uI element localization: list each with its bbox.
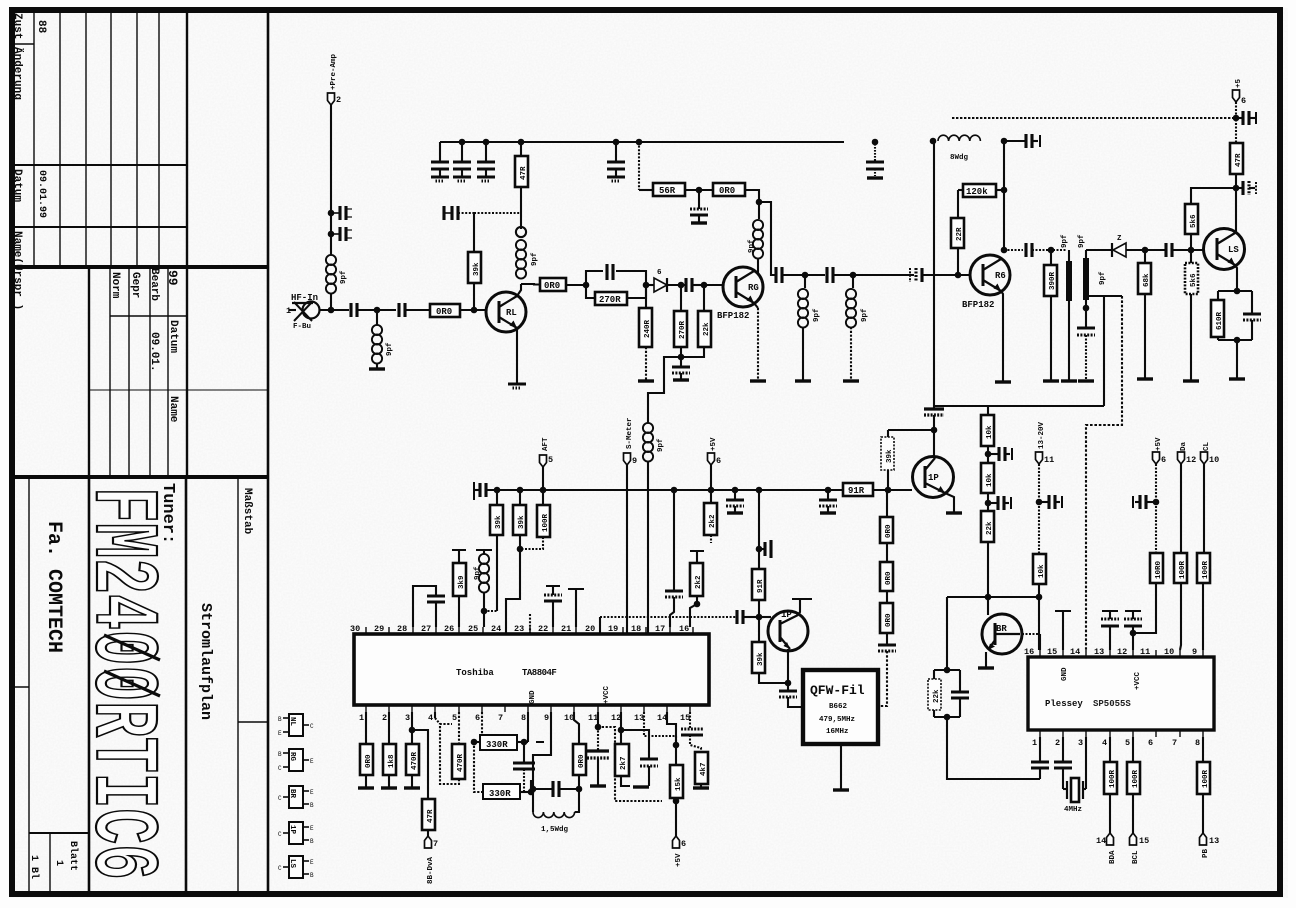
- title block texts: [11, 13, 253, 880]
- wire: [685, 189, 713, 191]
- node base-RL: [471, 307, 478, 314]
- resistor 10R0: [1150, 553, 1163, 583]
- ground L6: [795, 380, 811, 382]
- resistor 390R: [1050, 250, 1052, 265]
- svg-text:RG: RG: [288, 752, 296, 762]
- wire rail 6V: [440, 141, 844, 143]
- svg-text:Norm: Norm: [109, 272, 121, 299]
- svg-text:5k6: 5k6: [1190, 273, 1198, 287]
- resistor 2k2: [710, 490, 712, 503]
- wire to pin23: [506, 549, 520, 633]
- transistor BR: [982, 614, 1022, 654]
- schematic field left boundary: [267, 7, 270, 894]
- resistor 10k (13-20V): [1033, 554, 1046, 584]
- resistor 68k: [1144, 250, 1146, 263]
- svg-text:2: 2: [336, 95, 341, 105]
- capacitor R6 base: [916, 268, 922, 282]
- pin15 capacitor: [689, 712, 691, 729]
- svg-text:39k: 39k: [518, 515, 526, 529]
- svg-text:Änderung: Änderung: [11, 47, 24, 100]
- svg-text:4: 4: [1102, 738, 1107, 748]
- resistor 330R upper: [480, 712, 482, 742]
- svg-text:9pf: 9pf: [1061, 234, 1069, 248]
- wire to Plessey pin14 (long): [1086, 296, 1122, 650]
- svg-text:1: 1: [1032, 738, 1037, 748]
- svg-text:22: 22: [538, 624, 548, 634]
- node RG coil: [756, 199, 763, 206]
- node coil right: [1001, 138, 1008, 145]
- svg-text:0R0: 0R0: [885, 613, 893, 627]
- wire pin14 to 15k: [667, 712, 676, 745]
- svg-text:+5V: +5V: [675, 853, 683, 867]
- node rail +5V: [708, 487, 715, 494]
- svg-text:20: 20: [585, 624, 595, 634]
- node 10k b/22k: [985, 500, 992, 507]
- resistor 270R vertical: [680, 285, 682, 311]
- svg-text:25: 25: [468, 624, 478, 634]
- svg-text:18: 18: [631, 624, 641, 634]
- svg-text:E: E: [310, 789, 314, 796]
- node 68k: [1142, 247, 1149, 254]
- capacitor rail left end: [473, 482, 475, 500]
- svg-text:0R0: 0R0: [436, 307, 452, 317]
- svg-text:8: 8: [1195, 738, 1200, 748]
- wire down from coil node: [933, 141, 935, 409]
- svg-text:30: 30: [350, 624, 360, 634]
- IF line from R6 collector: [1004, 249, 1023, 251]
- plessey top stubs: [1040, 650, 1203, 657]
- svg-text:1: 1: [53, 860, 64, 866]
- capacitor 10k b: [988, 502, 998, 504]
- svg-text:B: B: [278, 716, 282, 723]
- connector AFT (5): [540, 455, 547, 467]
- svg-text:TA8804F: TA8804F: [522, 668, 556, 678]
- wire to coil node: [745, 190, 759, 202]
- svg-text:14: 14: [1070, 647, 1080, 657]
- svg-text:LS: LS: [288, 859, 296, 869]
- svg-text:12: 12: [1117, 647, 1127, 657]
- svg-text:6: 6: [1148, 738, 1153, 748]
- ground RG emitter: [750, 380, 766, 382]
- svg-text:22R: 22R: [956, 227, 964, 241]
- svg-text:9pf: 9pf: [813, 308, 821, 322]
- wire to IF coil (pin18): [648, 357, 681, 423]
- capacitor hf C3: [351, 303, 357, 317]
- resistor 3k9 (pin26): [458, 596, 460, 627]
- capacitor +5V: [1236, 117, 1243, 119]
- svg-text:Fa. COMTECH: Fa. COMTECH: [42, 521, 65, 653]
- capacitor 47R bottom: [1236, 187, 1243, 189]
- svg-text:330R: 330R: [489, 789, 511, 799]
- transistor RL: [486, 292, 526, 332]
- ground 240R: [638, 380, 654, 382]
- transistor LS: [1204, 229, 1245, 270]
- svg-text:09.01.: 09.01.: [148, 332, 160, 372]
- capacitor +5V plessey: [1146, 501, 1156, 503]
- node rail 39k2: [517, 487, 524, 494]
- svg-text:Stromlaufplan: Stromlaufplan: [197, 603, 214, 720]
- pin12 capacitor: [1132, 626, 1134, 650]
- TITLE BLOCK: [10, 9, 268, 894]
- ground 390R: [1043, 380, 1059, 382]
- svg-text:RL: RL: [506, 308, 517, 318]
- svg-text:Da: Da: [1180, 441, 1188, 451]
- ground BR: [978, 667, 994, 669]
- resistor 22k (dashed) with cap: [946, 597, 948, 670]
- mid section verticals: [88, 267, 90, 477]
- wire osc base to transistor: [759, 616, 771, 618]
- wire IF to Z diode: [1086, 249, 1112, 251]
- connector HF-In F-Bu: [286, 293, 320, 331]
- svg-text:2k7: 2k7: [620, 756, 628, 770]
- svg-text:9pf: 9pf: [657, 438, 665, 452]
- resistor 1k8 (pin2): [388, 712, 390, 744]
- svg-text:+5V: +5V: [1155, 437, 1163, 451]
- connector +5V top right: [1233, 90, 1240, 102]
- bottom pin numbers: [359, 713, 690, 723]
- pin13 capacitor: [1109, 626, 1111, 650]
- svg-text:47R: 47R: [1235, 153, 1243, 167]
- svg-text:11: 11: [588, 713, 598, 723]
- svg-text:Blatt: Blatt: [67, 841, 79, 871]
- svg-text:Zust: Zust: [11, 13, 23, 39]
- transistor 1P oscillator: [768, 610, 808, 651]
- svg-text:3: 3: [405, 713, 410, 723]
- connector +5V plessey (6): [1153, 452, 1160, 464]
- bottom pin stubs 1..15: [366, 705, 690, 712]
- wire RL collector: [517, 284, 521, 296]
- svg-text:S-Meter: S-Meter: [626, 417, 634, 449]
- resistor 47R (LS): [1230, 143, 1243, 174]
- node rail AFT: [540, 487, 547, 494]
- connector 13-20V (11): [1036, 452, 1043, 464]
- svg-text:6: 6: [657, 269, 662, 277]
- svg-text:LS: LS: [1228, 245, 1239, 255]
- resistor 22k: [981, 511, 994, 542]
- svg-text:13: 13: [1094, 647, 1104, 657]
- node 120k right: [1001, 187, 1008, 194]
- wire pre-amp vertical: [330, 105, 332, 255]
- node pin25 coil: [481, 608, 488, 615]
- node isolated cap: [872, 139, 879, 146]
- wire osc chain: [758, 490, 760, 569]
- package NL: [278, 714, 314, 737]
- svg-text:270R: 270R: [599, 295, 621, 305]
- capacitor 22k partner: [959, 670, 961, 692]
- capacitor 13-20V: [1039, 501, 1049, 503]
- resistor 10k b: [981, 463, 994, 493]
- capacitor rail C c: [485, 142, 487, 162]
- connector S-Meter (9): [624, 453, 631, 465]
- pin15 stub Tbar: [1062, 612, 1064, 650]
- svg-text:7: 7: [498, 713, 503, 723]
- svg-text:10: 10: [564, 713, 574, 723]
- svg-text:24: 24: [491, 624, 501, 634]
- node rail c: [483, 139, 490, 146]
- svg-text:12: 12: [611, 713, 621, 723]
- svg-text:Z: Z: [1117, 235, 1122, 243]
- svg-text:10: 10: [1209, 455, 1219, 465]
- svg-text:4MHz: 4MHz: [1064, 806, 1082, 814]
- node +5V cap: [1153, 499, 1160, 506]
- svg-text:5: 5: [452, 713, 457, 723]
- svg-text:C: C: [278, 765, 282, 772]
- wire BR collector net: [947, 596, 1039, 598]
- connector +Pre-Amp (2): [328, 93, 335, 105]
- inductor 8Wdg: [938, 135, 980, 141]
- wire mid rail: [486, 489, 843, 491]
- svg-text:120k: 120k: [966, 187, 988, 197]
- svg-text:B: B: [310, 872, 314, 879]
- stub pin21: [575, 590, 577, 627]
- svg-text:AFT: AFT: [542, 437, 550, 451]
- capacitor 39k-top: [444, 206, 458, 220]
- top pin numbers: [350, 624, 689, 634]
- capacitor hf C4: [399, 303, 405, 317]
- svg-text:1,5Wdg: 1,5Wdg: [541, 826, 569, 834]
- capacitor base RG: [686, 278, 692, 292]
- node R6 collector: [1001, 247, 1008, 254]
- node rail d: [613, 139, 620, 146]
- node rail cap828: [825, 487, 832, 494]
- resistor 39k (pin24): [496, 490, 498, 505]
- title area verticals: [28, 477, 30, 894]
- svg-text:E: E: [310, 859, 314, 866]
- capacitor emitter: [1251, 291, 1253, 314]
- capacitor rail C d: [615, 142, 617, 162]
- resistor 56R: [653, 183, 685, 196]
- svg-text:15: 15: [680, 713, 690, 723]
- svg-text:2: 2: [382, 713, 387, 723]
- svg-text:B: B: [278, 751, 282, 758]
- svg-text:NL: NL: [288, 717, 296, 727]
- resistor 470R (pin3): [411, 712, 413, 744]
- ground mixer emitter: [946, 512, 962, 514]
- wire 5k6 top: [1191, 188, 1236, 204]
- svg-text:100R: 100R: [1132, 769, 1140, 788]
- revision table horizontals: [10, 43, 34, 45]
- resistor 0R0 (RL collector out): [540, 278, 566, 291]
- svg-text:19: 19: [608, 624, 618, 634]
- svg-text:56R: 56R: [659, 186, 676, 196]
- bracket: [934, 669, 960, 671]
- svg-text:9pf: 9pf: [340, 270, 348, 284]
- svg-text:91R: 91R: [757, 579, 765, 593]
- svg-text:9: 9: [1192, 647, 1197, 657]
- capacitor 270R bottom: [680, 357, 682, 367]
- capacitor R6 base left Tbar: [909, 268, 911, 282]
- resistor 0R0 (pin1): [365, 712, 367, 744]
- capacitor tank: [533, 788, 553, 790]
- resistor 120k: [963, 184, 996, 197]
- svg-text:2k2: 2k2: [695, 575, 703, 589]
- node preamp-cap1: [328, 210, 335, 217]
- wire 22k bottom to pin1 cap: [947, 717, 1040, 779]
- node rail b: [459, 139, 466, 146]
- resistor 10k a: [981, 415, 994, 446]
- inductor L2 9pf: [376, 310, 378, 325]
- IC U1 Toshiba TA8804F: [354, 634, 709, 705]
- resistor 22k: [704, 285, 706, 311]
- node 39k2/100R: [517, 546, 524, 553]
- svg-text:27: 27: [421, 624, 431, 634]
- svg-text:4: 4: [428, 713, 433, 723]
- ground R6 emitter: [995, 381, 1011, 383]
- svg-text:3: 3: [1078, 738, 1083, 748]
- resistor 22R: [957, 247, 959, 275]
- svg-text:6: 6: [681, 839, 686, 849]
- wire branch to output cap: [759, 202, 776, 275]
- wire 270R/22k bottoms: [681, 347, 704, 357]
- capacitor rail C a: [439, 142, 441, 162]
- diode 6: [654, 269, 667, 292]
- svg-text:11: 11: [1140, 647, 1150, 657]
- svg-text:RG: RG: [748, 283, 759, 293]
- node hf1: [328, 307, 335, 314]
- resistor 4k7: [695, 752, 708, 784]
- node 10k a/b: [985, 451, 992, 458]
- node under bar2: [1083, 305, 1090, 312]
- node osc cap: [756, 546, 763, 553]
- resistor 47R (to connector 7): [412, 730, 428, 799]
- svg-text:22k: 22k: [703, 322, 711, 336]
- svg-text:17: 17: [655, 624, 665, 634]
- revision table verticals: [33, 9, 35, 267]
- node rail cap735: [732, 487, 739, 494]
- package LS: [278, 856, 314, 879]
- node emitter net bottom: [1234, 337, 1241, 344]
- wire S-Meter to pin19: [626, 465, 628, 633]
- svg-text:470R: 470R: [457, 753, 465, 772]
- wire LS emitter: [1235, 265, 1237, 291]
- capacitor 8Wdg right: [1004, 140, 1026, 142]
- svg-text:7: 7: [1172, 738, 1177, 748]
- node osc base: [756, 614, 763, 621]
- capacitor RG out: [776, 267, 782, 283]
- svg-text:F-Bu: F-Bu: [293, 323, 311, 331]
- resistor 39k osc: [752, 642, 765, 673]
- resistor 2k2 (pin16): [690, 550, 704, 552]
- wire BR emitter: [985, 652, 987, 667]
- node preamp-cap2: [328, 231, 335, 238]
- node coil left: [930, 138, 937, 145]
- svg-text:+5V: +5V: [710, 437, 718, 451]
- svg-text:5k6: 5k6: [1190, 214, 1198, 228]
- filter bar 2: [1083, 258, 1089, 300]
- node osc emitter: [785, 680, 792, 687]
- filter bar 1: [1066, 261, 1072, 301]
- capacitor 10k a: [988, 453, 999, 455]
- svg-text:91R: 91R: [848, 486, 865, 496]
- svg-text:21: 21: [561, 624, 571, 634]
- inductor L4 9pf RG collector: [758, 202, 760, 219]
- capacitor IF 1: [1026, 243, 1032, 257]
- ground 5k6: [1183, 380, 1199, 382]
- svg-text:BCL: BCL: [1132, 850, 1140, 864]
- wire 470R bottom to pin4 loop: [440, 724, 459, 784]
- svg-text:FM2400RTIC6: FM2400RTIC6: [69, 487, 172, 880]
- node rail osc: [756, 487, 763, 494]
- parallel RC 270R: top capacitor: [586, 271, 603, 285]
- svg-text:23: 23: [514, 624, 524, 634]
- capacitor rail C e (floating): [874, 144, 876, 162]
- resistor 47R: [520, 187, 522, 213]
- resistor 100R (pin5): [1132, 737, 1134, 762]
- wire pin13: [644, 712, 676, 745]
- wire +5V rail: [952, 117, 1236, 119]
- wire dotted to 47R node: [458, 212, 474, 214]
- ground L7: [843, 380, 859, 382]
- inductor pin25: [476, 549, 492, 551]
- svg-text:C: C: [278, 831, 282, 838]
- svg-text:BFP182: BFP182: [717, 311, 749, 321]
- capacitor rail C b: [461, 142, 463, 162]
- svg-text:390R: 390R: [1049, 271, 1057, 290]
- crystal 4MHz: [1063, 778, 1086, 814]
- svg-text:BDA: BDA: [1109, 850, 1117, 864]
- transistor RG: [723, 267, 763, 307]
- svg-text:0R0: 0R0: [885, 524, 893, 538]
- node rail 39k1: [494, 487, 501, 494]
- capacitor under filter: [1085, 308, 1087, 328]
- svg-text:330R: 330R: [486, 740, 508, 750]
- diode Z: [1112, 235, 1126, 257]
- wire pin3 to crystal: [1085, 737, 1087, 789]
- svg-text:6: 6: [716, 456, 721, 466]
- capacitor osc emitter: [787, 683, 789, 691]
- svg-text:Datum: Datum: [11, 169, 23, 202]
- svg-text:0R0: 0R0: [885, 571, 893, 585]
- node BR collector net: [1036, 594, 1043, 601]
- resistor 0R0 (RG collector feed): [713, 183, 745, 196]
- resistor 240R: [645, 285, 647, 308]
- wire from 22k chain: [987, 542, 989, 597]
- svg-text:1: 1: [286, 306, 291, 316]
- svg-text:9pf: 9pf: [1099, 271, 1107, 285]
- svg-text:QFW-Fil: QFW-Fil: [810, 683, 865, 698]
- svg-text:+5: +5: [1235, 78, 1243, 88]
- wire: [357, 309, 396, 311]
- package BR: [278, 786, 314, 809]
- wire 39k top to collector: [888, 429, 934, 431]
- svg-text:22k: 22k: [986, 521, 994, 535]
- svg-text:10: 10: [1164, 647, 1174, 657]
- svg-text:14: 14: [1096, 836, 1106, 846]
- wire BR base top: [987, 597, 989, 615]
- package RG: [278, 749, 314, 772]
- svg-text:479,5MHz: 479,5MHz: [819, 716, 855, 724]
- svg-text:270R: 270R: [679, 320, 687, 339]
- inductor L1 9pf: [326, 255, 336, 294]
- resistor 470R (pin5): [458, 712, 460, 744]
- node 390R: [1048, 247, 1055, 254]
- svg-text:10k: 10k: [986, 425, 994, 439]
- node 56R/0R0: [696, 187, 703, 194]
- connector BCL (15): [1130, 833, 1137, 845]
- svg-text:9: 9: [632, 456, 637, 466]
- inductor L6 9pf: [804, 275, 806, 288]
- svg-text:HF-In: HF-In: [291, 293, 318, 303]
- svg-text:C: C: [278, 795, 282, 802]
- svg-text:Datum: Datum: [167, 320, 179, 353]
- svg-text:GND: GND: [1061, 667, 1069, 681]
- svg-text:C: C: [310, 723, 314, 730]
- node R6 bias: [955, 272, 962, 279]
- svg-text:22k: 22k: [933, 689, 941, 703]
- svg-text:E: E: [310, 758, 314, 765]
- svg-text:0R0: 0R0: [544, 281, 560, 291]
- resistor 100R (pin8): [1202, 737, 1204, 762]
